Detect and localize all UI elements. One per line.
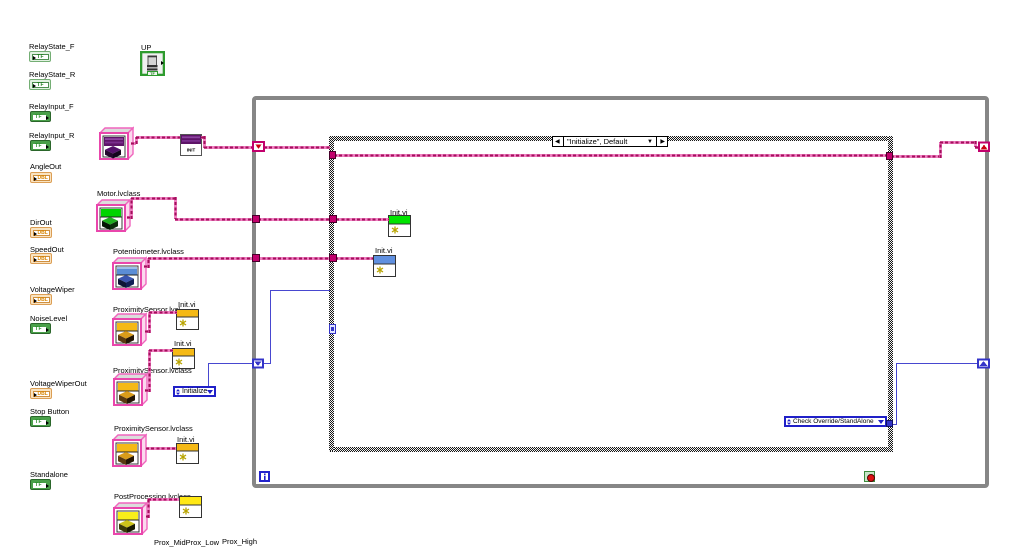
class constant ProximitySensor 3 (amber cube): [112, 433, 147, 467]
wire ProximitySensor3 to Init.vi: [146, 447, 176, 450]
loop stop condition terminal: [864, 471, 875, 482]
tunnel potentiometer on while loop: [253, 255, 260, 262]
sub VI Init (purple banner): [180, 134, 202, 156]
label RelayState_F: [29, 42, 74, 51]
label PostProcessing.lvclass: [114, 492, 191, 501]
enum constant Check Override/StandAlone: [784, 416, 887, 427]
wire case to right shift register: [891, 141, 979, 158]
case selector label: [552, 136, 668, 147]
label NoiseLevel: [30, 314, 67, 323]
sub VI Init.vi 2 (yellow band): [172, 348, 195, 369]
case structure border bottom: [329, 447, 893, 452]
blue wire enum Initialize to case selector: [208, 290, 330, 386]
case structure border top: [329, 136, 893, 141]
label VoltageWiper: [30, 285, 75, 294]
wire Motor to Init.vi green: [127, 197, 389, 220]
terminal DirOut: [30, 227, 52, 238]
iteration terminal i: [259, 471, 270, 482]
blue wire enum CheckOverride to right blue SR: [891, 363, 977, 425]
while loop border: [252, 96, 989, 488]
terminal Stop Button: [30, 416, 51, 427]
sub VI Init.vi blue band: [373, 255, 396, 277]
label Init.vi 2: [174, 339, 192, 348]
class constant Potentiometer (blue cube): [112, 256, 147, 290]
terminal SpeedOut: [30, 253, 52, 264]
label ProximitySensor.lvclass 1: [113, 305, 180, 314]
case structure border right: [888, 136, 893, 451]
wire left SR to case border: [264, 146, 330, 149]
sub VI Init.vi 1 (yellow band): [176, 309, 199, 330]
label VoltageWiperOut: [30, 379, 87, 388]
wire ProximitySensor1 to Init.vi: [145, 312, 177, 333]
class constant ProximitySensor 1 (amber cube): [112, 312, 147, 346]
tunnel motor on while loop: [253, 216, 260, 223]
label Init.vi blue: [375, 246, 393, 255]
case structure border left: [329, 136, 334, 451]
class constant ProximitySensor 2 (amber cube): [113, 372, 148, 406]
wire DblRelay to Init VI: [131, 137, 180, 144]
right shift register magenta: [979, 143, 989, 152]
label RelayInput_R: [29, 131, 74, 140]
label RelayState_R: [29, 70, 75, 79]
terminal VoltageWiper: [30, 294, 52, 305]
label SpeedOut: [30, 245, 64, 254]
class constant DblRelay (purple cube): [99, 126, 134, 160]
wire Init VI to left shift register: [201, 136, 252, 148]
label ProximitySensor.lvclass 2: [113, 366, 192, 375]
label Init.vi green: [390, 208, 408, 217]
label Init.vi 1: [178, 300, 196, 309]
tunnel motor on case: [330, 216, 337, 223]
case selector terminal: [330, 325, 336, 334]
label Motor.lvclass: [97, 189, 140, 198]
label DirOut: [30, 218, 52, 227]
terminal RelayState_R: [29, 79, 51, 90]
label RelayInput_F: [29, 102, 74, 111]
label AngleOut: [30, 162, 61, 171]
sub VI PostProcessing Init (bright yellow band): [179, 496, 202, 518]
terminal AngleOut: [30, 172, 52, 183]
class constant PostProcessing (yellow cube): [113, 501, 148, 535]
boolean control UP (switch icon): [140, 51, 165, 76]
tunnel top-left on case: [330, 152, 336, 159]
sub VI Init.vi green band: [388, 215, 411, 237]
terminal RelayInput_R: [30, 140, 51, 151]
wire Potentiometer to Init.vi blue: [144, 258, 373, 268]
label Stop Button: [30, 407, 69, 416]
terminal RelayInput_F: [30, 111, 51, 122]
tunnel blue enum on case: [887, 421, 893, 427]
label Potentiometer.lvclass: [113, 247, 184, 256]
free label Prox_High: [222, 537, 257, 546]
free label Prox_MidProx_Low: [154, 538, 219, 547]
enum constant Initialize: [173, 386, 216, 397]
wire PostProcessing to Init VI: [146, 499, 179, 518]
terminal NoiseLevel: [30, 323, 51, 334]
wire ProximitySensor2 to Init.vi: [145, 350, 173, 392]
left shift register magenta: [253, 142, 264, 151]
wire inside case top: [334, 154, 890, 157]
terminal VoltageWiperOut: [30, 388, 52, 399]
label UP: [141, 43, 151, 52]
label Init.vi 3: [177, 435, 195, 444]
terminal RelayState_F: [29, 51, 51, 62]
label ProximitySensor.lvclass 3: [114, 424, 193, 433]
tunnel top-right on case: [887, 153, 893, 160]
terminal Standalone: [30, 479, 51, 490]
label Standalone: [30, 470, 68, 479]
right shift register blue: [978, 360, 989, 368]
sub VI Init.vi 3 (yellow band): [176, 443, 199, 464]
tunnel potentiometer on case: [330, 255, 337, 262]
left shift register blue: [253, 360, 263, 368]
class constant Motor (green cube): [96, 198, 131, 232]
